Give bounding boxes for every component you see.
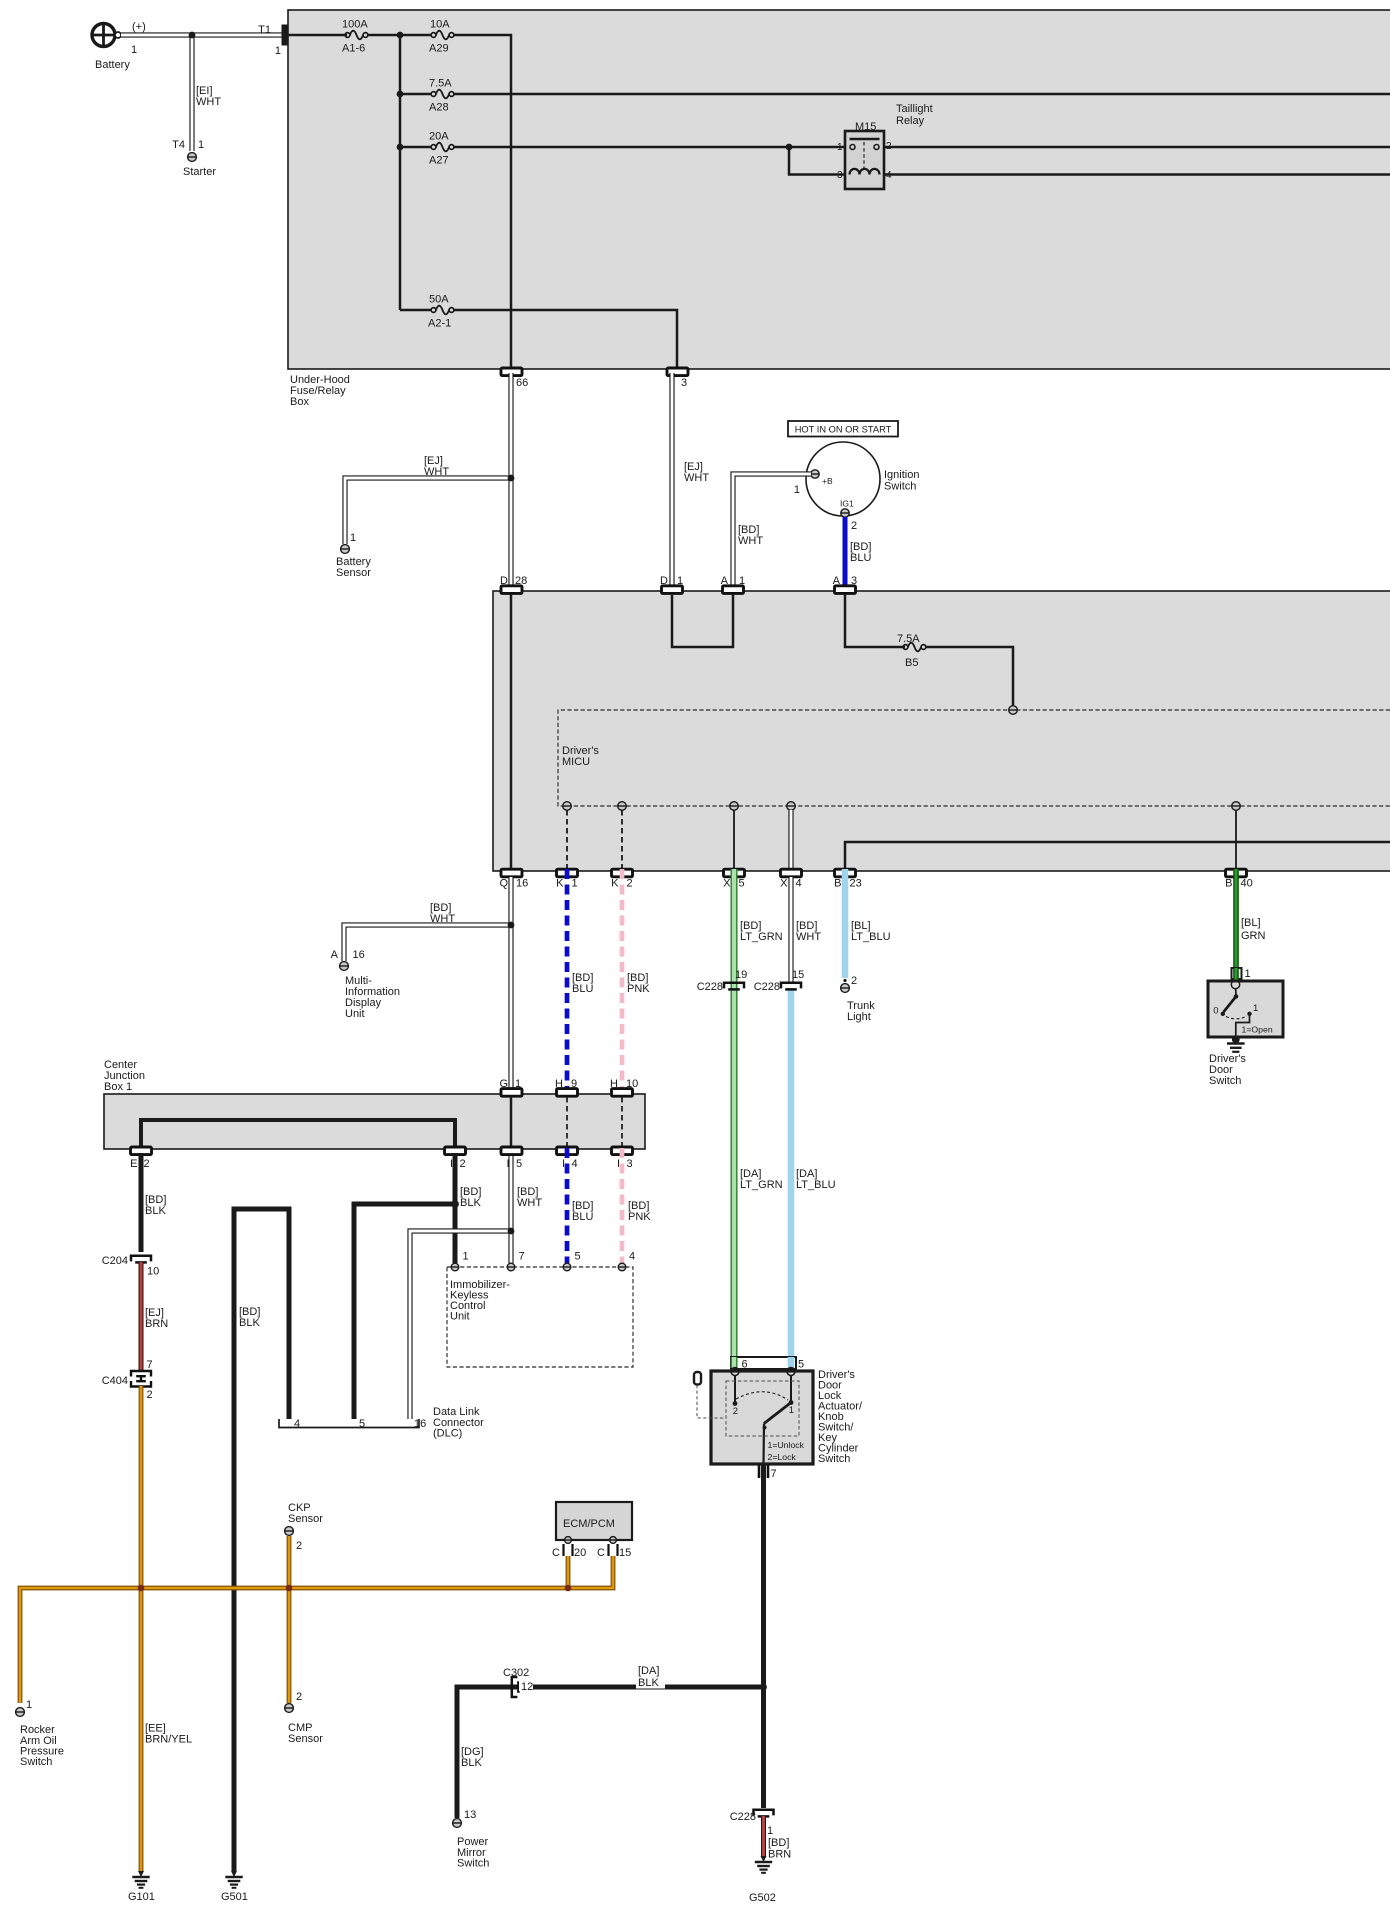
CKP terminal — [285, 1527, 294, 1536]
svg-text:BLU: BLU — [572, 1211, 593, 1223]
terminal T1 — [282, 25, 288, 46]
wire pin7 to C228 [BLK] — [761, 1464, 766, 1808]
wire IG1 to A3 [BD BLU] — [843, 517, 848, 587]
wire I2 to immobilizer [BD BLK] — [453, 1153, 458, 1263]
svg-text:Light: Light — [847, 1011, 871, 1023]
svg-text:15: 15 — [792, 969, 804, 981]
junction dot orange C20 — [565, 1585, 572, 1592]
wire A29 to 66 drop — [454, 35, 511, 369]
door switch contact 1 — [1247, 1012, 1251, 1016]
wire X5 internal — [733, 810, 735, 868]
wire MID branch [WHT] — [344, 925, 511, 961]
door lock throw arc — [736, 1392, 788, 1400]
svg-text:HOT IN ON OR START: HOT IN ON OR START — [795, 425, 892, 435]
svg-text:B: B — [834, 878, 841, 890]
svg-text:2: 2 — [144, 1158, 150, 1170]
wire I5 to immobilizer [BD WHT] — [508, 1156, 513, 1263]
svg-text:I: I — [617, 1158, 620, 1170]
wire C204 to C404 [EJ BRN] — [139, 1262, 144, 1370]
taillight relay M15 box — [845, 131, 884, 189]
pin A3 — [835, 586, 856, 594]
svg-text:BRN: BRN — [145, 1318, 168, 1330]
door switch pivot dot — [1234, 994, 1239, 999]
wire bus to A27 fuse — [400, 146, 431, 149]
svg-text:5: 5 — [359, 1418, 365, 1430]
CMP terminal — [285, 1704, 294, 1713]
svg-text:2: 2 — [147, 1389, 153, 1401]
wire K1 internal dashed — [566, 810, 568, 868]
CJB internal H10-I3 dashed — [621, 1097, 623, 1146]
junction dot battery sensor — [508, 475, 515, 482]
svg-text:G501: G501 — [221, 1891, 248, 1903]
svg-text:B5: B5 — [905, 657, 918, 669]
ground G501 — [231, 1871, 237, 1877]
MICU dashed outline — [558, 710, 1390, 806]
svg-text:Taillight: Taillight — [896, 103, 933, 115]
pin G1 — [501, 1089, 522, 1097]
svg-text:BLK: BLK — [460, 1197, 481, 1209]
MICU terminal B40 — [1232, 802, 1241, 811]
door lock wire to pin7 — [762, 1424, 765, 1465]
svg-text:5: 5 — [739, 878, 745, 890]
MICU terminal X5 — [730, 802, 739, 811]
svg-text:2: 2 — [851, 975, 857, 987]
connector C302 — [512, 1677, 518, 1697]
svg-text:BLU: BLU — [850, 552, 871, 564]
fuse 20A A27 — [431, 145, 436, 150]
svg-text:66: 66 — [516, 377, 528, 389]
immobilizer pin 7 — [507, 1263, 515, 1271]
svg-text:Sensor: Sensor — [336, 567, 371, 579]
svg-text:T1: T1 — [258, 24, 271, 36]
connector C228 pin1 — [754, 1810, 774, 1816]
door lock lever dot — [763, 1426, 767, 1430]
svg-text:IG1: IG1 — [840, 499, 854, 509]
trunk light wire end dot — [843, 979, 846, 982]
svg-text:3: 3 — [681, 377, 687, 389]
junction dot I5 DLC branch — [508, 1228, 515, 1235]
svg-text:7: 7 — [147, 1359, 153, 1371]
svg-text:4: 4 — [629, 1251, 635, 1263]
svg-text:BLK: BLK — [638, 1677, 659, 1689]
svg-text:ECM/PCM: ECM/PCM — [563, 1518, 615, 1530]
door switch box — [1208, 981, 1283, 1037]
door switch ground — [1227, 1042, 1245, 1045]
svg-text:K: K — [611, 878, 619, 890]
junction dot MID branch — [508, 922, 515, 929]
svg-text:10A: 10A — [430, 19, 450, 31]
wire K1 to H9 [BD BLU] dashed — [565, 869, 570, 1091]
battery sensor terminal — [341, 545, 350, 554]
wire A28 row to right edge — [454, 93, 1390, 96]
wire I3 to immobilizer [BD PNK] dashed — [620, 1148, 625, 1263]
svg-text:2=Lock: 2=Lock — [768, 1452, 797, 1462]
door switch wire to ground — [1236, 1014, 1250, 1039]
svg-text:2: 2 — [851, 520, 857, 532]
svg-text:LT_GRN: LT_GRN — [740, 931, 783, 943]
svg-text:Relay: Relay — [896, 115, 925, 127]
ECM pin C20 — [565, 1537, 572, 1544]
svg-text:X: X — [780, 878, 788, 890]
svg-text:BLK: BLK — [145, 1205, 166, 1217]
wire bus to A28 fuse — [400, 93, 431, 96]
svg-text:BLK: BLK — [461, 1757, 482, 1769]
wire 66 to D28 [EJ WHT] — [508, 373, 513, 587]
svg-text:G: G — [499, 1078, 508, 1090]
ECM pin C15 — [610, 1537, 617, 1544]
key symbol — [694, 1372, 701, 1385]
door lock contact 2 — [734, 1376, 736, 1403]
ECM/PCM box — [556, 1502, 632, 1540]
svg-text:A: A — [721, 575, 729, 587]
svg-text:(DLC): (DLC) — [433, 1428, 462, 1440]
svg-text:50A: 50A — [429, 294, 449, 306]
door lock pin6 terminal — [731, 1368, 739, 1376]
svg-text:Sensor: Sensor — [288, 1513, 323, 1525]
wire I5 branch to DLC 16 [WHT] — [410, 1231, 511, 1419]
svg-text:C228: C228 — [730, 1811, 756, 1823]
connector C204 — [131, 1256, 151, 1262]
pin D28 — [501, 586, 522, 594]
svg-text:A2-1: A2-1 — [428, 318, 451, 330]
svg-text:0: 0 — [1213, 1006, 1218, 1017]
svg-text:16: 16 — [353, 949, 365, 961]
fuse 50A A2-1 — [431, 308, 436, 313]
junction dot power mirror — [760, 1684, 767, 1691]
svg-text:K: K — [556, 878, 564, 890]
wire D1 to A1 link — [672, 594, 733, 647]
svg-text:7.5A: 7.5A — [897, 633, 920, 645]
svg-text:2: 2 — [886, 141, 892, 152]
pin H10 — [612, 1089, 633, 1097]
wire LT_GRN through connector — [731, 1357, 738, 1368]
svg-text:7: 7 — [519, 1251, 525, 1263]
svg-text:BLK: BLK — [239, 1317, 260, 1329]
svg-text:A28: A28 — [429, 102, 449, 114]
MICU terminal K1 — [563, 802, 572, 811]
svg-text:BRN/YEL: BRN/YEL — [145, 1734, 192, 1746]
battery — [92, 24, 115, 47]
svg-text:2: 2 — [627, 878, 633, 890]
door switch ground dot — [1232, 1036, 1240, 1044]
svg-text:1=Unlock: 1=Unlock — [768, 1440, 805, 1450]
ignition switch circle — [806, 442, 880, 516]
key dashed link — [697, 1385, 726, 1418]
door switch lever — [1224, 997, 1237, 1013]
svg-text:Switch: Switch — [1209, 1075, 1241, 1087]
svg-text:6: 6 — [742, 1359, 748, 1371]
ground G502 — [761, 1856, 767, 1862]
svg-text:A29: A29 — [429, 43, 449, 55]
relay dashed link — [863, 142, 865, 171]
power mirror terminal — [453, 1819, 462, 1828]
svg-text:C204: C204 — [102, 1255, 128, 1267]
CJB internal G1-I5 — [510, 1097, 513, 1146]
wire T1 to fuse 100A — [287, 34, 347, 37]
DLC bracket — [279, 1419, 419, 1428]
wire I4 to immobilizer [BD BLU] dashed — [565, 1148, 570, 1263]
svg-text:10: 10 — [147, 1266, 159, 1278]
ignition IG1 terminal — [841, 509, 849, 517]
door lock box — [711, 1371, 813, 1464]
svg-text:16: 16 — [516, 878, 528, 890]
svg-text:10: 10 — [626, 1078, 638, 1090]
door switch contact 0 — [1221, 1012, 1225, 1016]
pin X5 — [724, 869, 745, 877]
junction dot A27 — [397, 144, 404, 151]
door lock contact 1 — [790, 1376, 792, 1402]
svg-text:1: 1 — [789, 1405, 794, 1416]
svg-text:12: 12 — [521, 1681, 533, 1693]
wire 3 to D1 [EJ WHT] — [669, 373, 674, 587]
svg-text:[BD]: [BD] — [768, 1837, 789, 1849]
wire A2-1 to pin 3 drop — [454, 310, 677, 369]
svg-text:Switch: Switch — [818, 1453, 850, 1465]
svg-text:Box: Box — [290, 396, 309, 408]
immobilizer-keyless control unit box — [447, 1267, 633, 1367]
wire B40 internal — [1235, 810, 1237, 868]
svg-text:28: 28 — [515, 575, 527, 587]
pin Q16 — [501, 869, 522, 877]
wire relay pin2 to right edge — [878, 146, 1390, 149]
door lock connector — [731, 1357, 796, 1369]
svg-text:1: 1 — [677, 575, 683, 587]
wire K2 internal dashed — [621, 810, 623, 868]
connector 66 — [501, 368, 522, 376]
svg-text:A: A — [833, 575, 841, 587]
pin E2 — [131, 1147, 152, 1155]
svg-text:1: 1 — [1245, 968, 1251, 980]
wire A2-1 row — [400, 309, 431, 312]
trunk light terminal — [841, 984, 850, 993]
door switch throw arc — [1226, 1016, 1247, 1019]
pin D1 — [662, 586, 683, 594]
svg-text:23: 23 — [850, 878, 862, 890]
wire I2 branch to DLC 5 — [354, 1204, 455, 1419]
svg-text:WHT: WHT — [796, 931, 821, 943]
Center Junction Box 1 — [104, 1094, 645, 1149]
svg-text:1: 1 — [739, 575, 745, 587]
wire B40 to door switch [BL GRN] — [1233, 869, 1239, 968]
svg-text:7: 7 — [771, 1468, 777, 1480]
svg-text:Box 1: Box 1 — [104, 1081, 132, 1093]
svg-text:4: 4 — [294, 1418, 300, 1430]
svg-text:MICU: MICU — [562, 756, 590, 768]
svg-text:T4: T4 — [172, 139, 185, 151]
svg-text:Ignition: Ignition — [884, 469, 919, 481]
svg-text:2: 2 — [733, 1406, 738, 1417]
HOT IN ON OR START box — [788, 421, 898, 437]
svg-text:1: 1 — [131, 44, 137, 56]
wire X5 to door lock [LT_GRN] — [731, 869, 738, 1356]
door switch terminal — [1231, 980, 1239, 988]
svg-text:(+): (+) — [132, 21, 146, 33]
MICU terminal K2 — [618, 802, 627, 811]
svg-text:20: 20 — [574, 1547, 586, 1559]
svg-text:H: H — [610, 1078, 618, 1090]
svg-text:Switch: Switch — [884, 481, 916, 493]
wire GRN through door switch connector — [1233, 968, 1239, 980]
CJB internal H9-I4 dashed — [566, 1097, 568, 1146]
fuse 10A A29 — [431, 33, 436, 38]
wire D28 to Q16 through MICU — [510, 594, 513, 868]
svg-text:[BL]: [BL] — [1241, 917, 1261, 929]
wire E2 to C204 [BD BLK] — [139, 1153, 144, 1252]
pin K1 — [557, 869, 578, 877]
svg-text:13: 13 — [464, 1809, 476, 1821]
starter terminal — [188, 153, 197, 162]
svg-text:WHT: WHT — [684, 472, 709, 484]
svg-text:2: 2 — [460, 1158, 466, 1170]
wire battery to T1 [WHT] — [121, 32, 283, 37]
svg-text:1: 1 — [463, 1251, 469, 1263]
svg-text:1: 1 — [1253, 1003, 1258, 1014]
svg-text:PNK: PNK — [628, 1211, 651, 1223]
svg-text:5: 5 — [575, 1251, 581, 1263]
svg-text:16: 16 — [414, 1418, 426, 1430]
svg-text:Unit: Unit — [450, 1311, 470, 1323]
wire A27 row to relay — [454, 146, 850, 149]
pin B23 — [835, 869, 856, 877]
wire C20 branch — [566, 1556, 571, 1588]
svg-text:LT_BLU: LT_BLU — [796, 1179, 836, 1191]
svg-text:3: 3 — [627, 1158, 633, 1170]
svg-text:A: A — [331, 949, 339, 961]
wire K2 to H10 [BD PNK] dashed — [620, 869, 625, 1091]
svg-text:Battery: Battery — [95, 59, 130, 71]
svg-text:3: 3 — [837, 170, 843, 181]
pin A1 — [723, 586, 744, 594]
svg-text:4: 4 — [796, 878, 802, 890]
svg-text:7.5A: 7.5A — [429, 78, 452, 90]
wire +B to A1 [BD WHT] — [733, 474, 811, 587]
svg-text:WHT: WHT — [738, 535, 763, 547]
svg-text:9: 9 — [571, 1078, 577, 1090]
vertical bus wire — [399, 35, 402, 310]
svg-text:A1-6: A1-6 — [342, 43, 365, 55]
connector C404 — [131, 1371, 151, 1387]
wire to starter [EI WHT] — [189, 35, 194, 151]
svg-text:2: 2 — [296, 1691, 302, 1703]
immobilizer pin 5 — [563, 1263, 571, 1271]
junction dot starter branch — [189, 32, 196, 39]
wire C228 to door lock [DA LT_BLU] — [788, 988, 795, 1356]
svg-text:+B: +B — [822, 476, 833, 486]
junction dot A28 — [397, 91, 404, 98]
svg-text:1: 1 — [794, 484, 800, 496]
junction dot orange CKP — [286, 1585, 293, 1592]
svg-text:C: C — [552, 1547, 560, 1559]
svg-text:Switch: Switch — [457, 1858, 489, 1870]
svg-text:Switch: Switch — [20, 1756, 52, 1768]
wire LT_BLU through connector — [788, 1357, 795, 1368]
svg-text:1: 1 — [275, 45, 281, 57]
wire power mirror branch [BLK] — [457, 1687, 764, 1818]
svg-text:1: 1 — [767, 1825, 773, 1837]
wire relay pin4 to right edge — [879, 173, 1390, 176]
svg-text:5: 5 — [798, 1359, 804, 1371]
wire B5 to MICU terminal — [926, 647, 1013, 706]
Driver's MICU outer box — [493, 591, 1390, 871]
svg-text:Unit: Unit — [345, 1008, 365, 1020]
MICU terminal B5 — [1009, 706, 1018, 715]
svg-text:4: 4 — [572, 1158, 578, 1170]
svg-text:BRN: BRN — [768, 1849, 791, 1861]
wire C404 to G101 [EE] — [139, 1386, 144, 1871]
svg-text:1: 1 — [837, 142, 843, 153]
svg-text:1: 1 — [198, 139, 204, 151]
svg-text:4: 4 — [886, 170, 892, 181]
junction dot I2 DLC branch — [451, 1200, 459, 1208]
svg-text:WHT: WHT — [517, 1197, 542, 1209]
svg-text:C228: C228 — [754, 981, 780, 993]
door switch connector — [1232, 968, 1242, 979]
svg-text:Sensor: Sensor — [288, 1733, 323, 1745]
svg-text:WHT: WHT — [196, 96, 221, 108]
MICU terminal X4 — [787, 802, 796, 811]
Under-Hood Fuse/Relay Box — [288, 10, 1390, 369]
wire DLC4 to G501 — [234, 1209, 289, 1871]
pin I2 — [445, 1147, 466, 1155]
wire battery sensor branch [WHT] — [345, 478, 511, 544]
wire Q16 to G1 [BD WHT] — [508, 877, 513, 1090]
connector 3 — [667, 368, 688, 376]
wire X4 internal [WHT] — [788, 810, 793, 868]
svg-text:LT_BLU: LT_BLU — [851, 931, 891, 943]
pin I4 — [557, 1147, 578, 1155]
fuse 100A A1-6 — [345, 33, 350, 38]
svg-text:X: X — [723, 878, 731, 890]
pin I3 — [612, 1147, 633, 1155]
svg-text:5: 5 — [516, 1158, 522, 1170]
wire C228 to G502 [BD BRN] — [761, 1816, 766, 1856]
svg-text:19: 19 — [735, 969, 747, 981]
door lock lever — [764, 1403, 791, 1424]
svg-text:A27: A27 — [429, 155, 449, 167]
MID terminal — [340, 962, 349, 971]
rocker arm terminal — [16, 1708, 25, 1717]
svg-text:D: D — [660, 575, 668, 587]
svg-text:40: 40 — [1241, 878, 1253, 890]
svg-text:I: I — [562, 1158, 565, 1170]
fuse 7.5A B5 — [903, 645, 908, 650]
svg-text:Starter: Starter — [183, 166, 216, 178]
pin B40 — [1226, 869, 1247, 877]
door lock pin5 terminal — [787, 1368, 795, 1376]
wire B23 internal — [845, 842, 1390, 868]
immobilizer pin 1 — [451, 1263, 459, 1271]
pin X4 — [781, 869, 802, 877]
svg-text:LT_GRN: LT_GRN — [740, 1179, 783, 1191]
junction dot relay coil branch — [786, 144, 793, 151]
junction dot orange G101 — [138, 1585, 145, 1592]
wire A3 to fuse B5 — [845, 594, 905, 647]
svg-text:2: 2 — [296, 1540, 302, 1552]
svg-text:1: 1 — [26, 1699, 32, 1711]
wire CKP-CMP vertical — [287, 1536, 292, 1703]
pin H9 — [557, 1089, 578, 1097]
CJB internal E2-I2 link — [141, 1120, 455, 1146]
ground G101 — [138, 1871, 144, 1877]
wire fuse100A to bus — [368, 34, 431, 37]
svg-text:[DA]: [DA] — [638, 1665, 659, 1677]
immobilizer pin 4 — [618, 1263, 626, 1271]
svg-text:100A: 100A — [342, 19, 368, 31]
svg-text:H: H — [555, 1078, 563, 1090]
svg-text:BLU: BLU — [572, 983, 593, 995]
svg-text:C: C — [597, 1547, 605, 1559]
svg-text:Q: Q — [499, 878, 508, 890]
